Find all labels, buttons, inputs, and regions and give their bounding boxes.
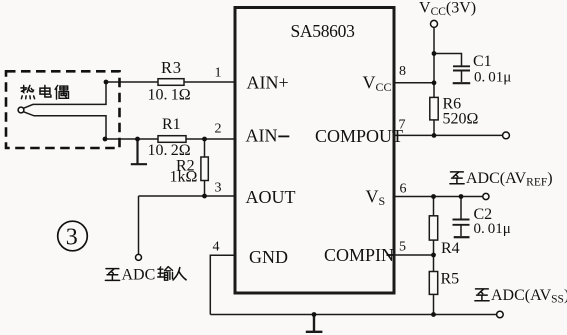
svg-text:6: 6 [400, 182, 407, 197]
node R5 bottom rail junction [431, 312, 436, 317]
node thermocouple top junction [104, 80, 109, 85]
svg-text:AOUT: AOUT [246, 187, 296, 207]
wire R5 bottom lead [433, 294, 435, 314]
wire C2 to ground bar [460, 225, 462, 236]
IC U1 SA58603 body [235, 8, 394, 294]
svg-text:1: 1 [215, 66, 222, 81]
dashed thermocouple box [6, 71, 120, 148]
resistor R6 box [430, 97, 438, 120]
wire C2 branch [460, 197, 462, 220]
label to ADC input 至ADC输入 [105, 267, 186, 284]
wire R5 top lead [433, 255, 435, 272]
svg-text:1kΩ: 1kΩ [170, 169, 198, 186]
wire pin7 COMPOUT to terminal [394, 134, 503, 136]
wire pin3 AOUT line [139, 195, 235, 197]
svg-text:R3: R3 [161, 58, 182, 77]
ground symbol bottom [306, 315, 323, 332]
node R6 COMPOUT junction [432, 133, 437, 138]
wire C1 branch [434, 54, 462, 67]
svg-text:5: 5 [399, 240, 406, 255]
wire pin5 COMPIN [394, 254, 434, 256]
resistor R3 box [158, 79, 184, 86]
terminal thermocouple output circle [18, 107, 24, 113]
svg-text:AIN: AIN [246, 126, 278, 146]
svg-text:3: 3 [66, 225, 78, 251]
svg-text:SA58603: SA58603 [291, 21, 356, 41]
svg-text:520Ω: 520Ω [443, 111, 479, 128]
wire pin2 from thermocouple to R1 [105, 138, 158, 140]
terminal AVREF [483, 193, 489, 199]
label to ADC AVREF [450, 170, 553, 189]
wire C1 to ground bar [461, 71, 463, 83]
svg-text:VCC(3V): VCC(3V) [419, 0, 476, 18]
svg-text:4: 4 [213, 240, 220, 255]
svg-text:0. 01μ: 0. 01μ [474, 70, 511, 86]
svg-text:8: 8 [399, 64, 406, 79]
node thermocouple bottom junction [103, 137, 108, 142]
terminal AVSS [497, 311, 504, 318]
node VCC pin8 junction [432, 80, 437, 85]
wire thermocouple bottom lead [24, 112, 106, 139]
svg-text:ADC: ADC [122, 267, 156, 284]
svg-text:10. 1Ω: 10. 1Ω [148, 87, 191, 104]
resistor R2 box [201, 157, 208, 181]
node R2 bottom junction [202, 194, 207, 199]
svg-text:R5: R5 [441, 271, 460, 288]
wire VCC vertical [433, 28, 435, 98]
svg-text:10. 2Ω: 10. 2Ω [148, 142, 191, 159]
svg-text:COMPOUT: COMPOUT [315, 126, 403, 146]
svg-text:2: 2 [215, 122, 222, 137]
svg-text:7: 7 [399, 118, 406, 133]
svg-text:AIN+: AIN+ [247, 73, 289, 93]
capacitor C1 [453, 66, 470, 70]
wire R4 bottom lead [433, 240, 435, 255]
ground bar of C2 [454, 236, 470, 238]
capacitor C2 [453, 220, 470, 225]
node R4 R5 COMPIN junction [431, 253, 436, 258]
svg-text:0. 01μ: 0. 01μ [474, 221, 511, 237]
label thermocouple 热电偶 [21, 85, 69, 99]
wire R3 to AIN+ [184, 81, 234, 83]
svg-text:3: 3 [215, 181, 222, 196]
wire pin1 from thermocouple to R3 [106, 81, 158, 83]
terminal VCC 3V [431, 20, 438, 27]
terminal COMPOUT output [503, 132, 510, 139]
resistor R4 box [429, 216, 437, 240]
node R4 top junction [431, 194, 436, 199]
wire R2 bottom lead [204, 181, 206, 197]
label to ADC AVSS [475, 287, 567, 306]
svg-text:COMPIN: COMPIN [324, 245, 394, 265]
svg-text:R4: R4 [441, 240, 460, 257]
wire bottom ground rail [210, 314, 496, 316]
svg-text:R1: R1 [162, 116, 181, 133]
ground at R1 input [131, 139, 147, 164]
wire pin8 VCC [394, 82, 434, 84]
wire pin4 GND down leg [210, 255, 234, 314]
figure number circled 3 [58, 221, 88, 251]
wire R1 to AIN- [186, 138, 234, 140]
node ground branch on AIN- line [135, 137, 140, 142]
ground bar of C1 [453, 82, 471, 84]
wire R6 bottom lead [433, 120, 435, 135]
node ground rail junction [312, 312, 317, 317]
svg-text:GND: GND [249, 247, 288, 267]
wire pin6 VS to terminal [394, 196, 483, 198]
wire thermocouple top lead [24, 82, 106, 108]
svg-text:C1: C1 [473, 53, 492, 70]
wire R4 top lead [433, 197, 435, 216]
wire R2 top lead [204, 139, 206, 157]
node C1 branch junction [432, 51, 437, 56]
wire to ADC input terminal [138, 196, 140, 254]
resistor R5 box [429, 272, 437, 295]
node R2 top junction [202, 137, 207, 142]
resistor R1 box [158, 136, 186, 143]
terminal ADC input [136, 254, 142, 260]
node C2 branch junction [459, 194, 464, 199]
